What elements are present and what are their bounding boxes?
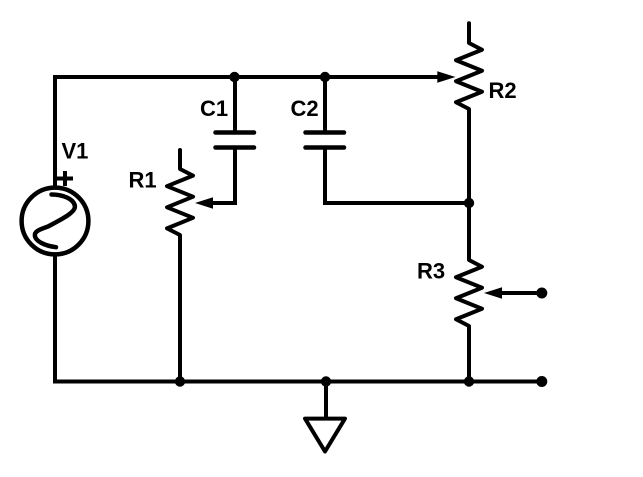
wiper arrow of R3 from right terminal [484,287,541,299]
potentiometer R2 [456,23,482,203]
junction dot bottom rail / R3 [464,376,474,386]
svg-text:R3: R3 [417,259,445,284]
svg-text:R2: R2 [489,78,517,103]
junction dot top rail / C1 [229,72,239,82]
terminal dot R3 wiper [536,288,547,299]
junction dot bottom rail / ground [321,376,331,386]
capacitor C2 [306,77,470,203]
wire left vertical from top rail to V1 [53,75,57,188]
capacitor C1 [216,77,255,148]
plus polarity mark of V1 [57,171,73,186]
wire bottom rail [53,380,541,384]
junction dot bottom rail / R1 [175,376,185,386]
svg-text:V1: V1 [62,139,89,164]
svg-text:C2: C2 [291,96,319,121]
wire top rail from V1 to R2 wiper [55,75,438,79]
junction dot top rail / C2 [320,72,330,82]
potentiometer R3 [456,203,482,382]
voltage source V1 [22,188,89,255]
wiper arrow of R2 (tip of top rail) [437,71,455,83]
wire V1 bottom to bottom rail [53,254,57,382]
svg-text:R1: R1 [129,168,157,193]
wiper arrow of R1 from C1 [195,146,235,209]
terminal dot bottom rail end [536,376,547,387]
svg-text:C1: C1 [200,96,228,121]
ground [305,382,345,452]
potentiometer R1 [167,150,193,382]
junction dot C2 / R2 / R3 node [464,198,474,208]
